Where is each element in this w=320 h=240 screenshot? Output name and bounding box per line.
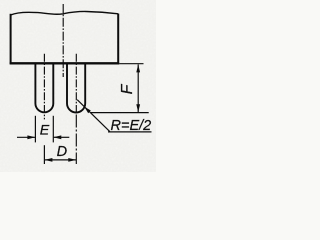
svg-text:E: E — [40, 122, 50, 138]
svg-text:D: D — [57, 144, 67, 160]
svg-text:R=E/2: R=E/2 — [111, 118, 152, 134]
svg-text:F: F — [119, 83, 136, 94]
